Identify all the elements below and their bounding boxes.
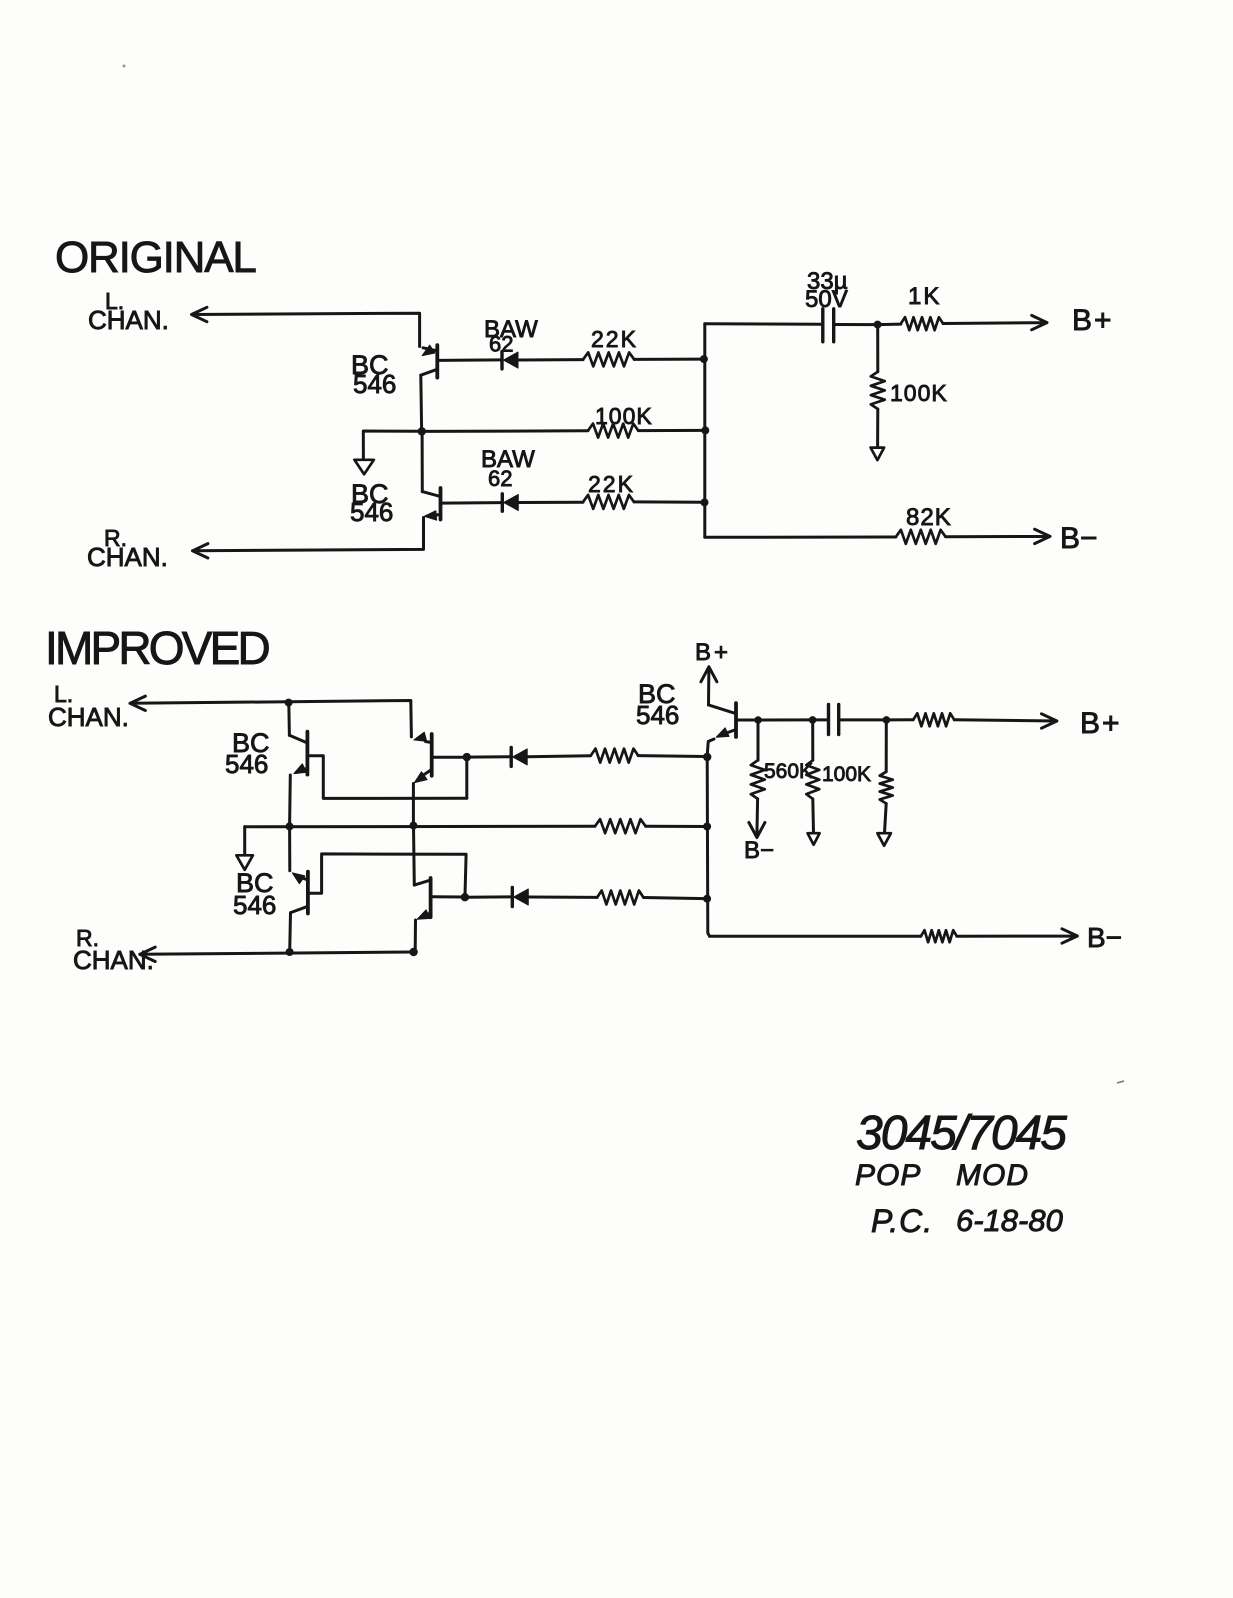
wire bus to capacitor C1 (705, 322, 822, 326)
node dot bus top (original) (700, 355, 708, 363)
node R. CHAN. label (improved) (73, 925, 154, 975)
wire D1 to resistor R1 (518, 358, 583, 361)
diode D3 (improved top row) (510, 747, 513, 766)
wire L-chan dot to Q3 emitter (287, 703, 291, 736)
node dot L channel (improved) (285, 699, 293, 707)
wire center node to ground stub (original) (363, 431, 422, 460)
svg-text:P.C.: P.C. (871, 1203, 933, 1239)
wire Q4 base to row node (434, 756, 465, 759)
svg-text:62: 62 (489, 332, 513, 357)
svg-text:560K: 560K (764, 760, 813, 783)
wire R12 to ground (811, 799, 815, 833)
wire Q4-base dot to diode D3 (467, 755, 510, 758)
label BAW 62 (D1) (484, 316, 538, 357)
resistor R14 (improved B+ out) (913, 713, 954, 726)
node dot middle bus left (improved) (286, 822, 294, 830)
node dot 100K (improved) (809, 716, 817, 724)
node dot improved bus middle (703, 823, 711, 831)
wire Q1 emitter to center node (419, 375, 423, 428)
wire Q2 emitter to R channel (193, 518, 424, 559)
resistor R5 100K (vertical) (871, 372, 885, 409)
svg-text:82K: 82K (906, 504, 952, 531)
wire Q2 base to diode D2 (442, 501, 501, 505)
label BAW 62 (D2) (481, 446, 535, 491)
wire D4 to resistor R9 (529, 896, 597, 899)
wire bus to resistor R6 (705, 536, 896, 539)
wire Q5 base loop to Q6 leg (310, 854, 466, 895)
wire R9 to right bus (644, 898, 706, 899)
svg-text:1K: 1K (908, 283, 941, 310)
node dot middle bus right (improved) (409, 822, 417, 830)
svg-text:546: 546 (233, 890, 276, 920)
node L. CHAN. label (original) (88, 288, 169, 335)
svg-text:B−: B− (1060, 522, 1098, 555)
wire bus to resistor R10 (B- out) (710, 935, 921, 938)
node junction dot (original center) (418, 427, 426, 435)
node dot bus middle (original) (701, 426, 709, 434)
wire middle-left dot to Q5 (288, 827, 291, 871)
wire node3 to resistor R13 (885, 720, 888, 772)
svg-text:50V: 50V (805, 286, 848, 313)
svg-text:22K: 22K (591, 326, 638, 352)
svg-text:B−: B− (1087, 922, 1122, 953)
wire R11 to B- arrow (749, 799, 765, 838)
wire Q6 emitter down to R channel (414, 920, 417, 951)
wire Q3 base loop to Q4 leg (309, 756, 467, 799)
ground (improved left) (243, 827, 246, 855)
transistor Q1 BC546 (original, L channel) (421, 345, 438, 378)
diode D2 BAW62 (501, 494, 504, 511)
wire node1 to resistor R11 (757, 720, 760, 760)
wire R14 to B+ (improved) (954, 714, 1057, 728)
transistor Q4 BC546 (improved, L upper-right) (414, 732, 432, 782)
node dot bus bottom (original) (701, 498, 709, 506)
node dot improved bus top (703, 753, 711, 761)
wire node2 to capacitor C2 (813, 718, 827, 721)
wire R4 to B+ (original) (943, 315, 1047, 329)
wire Q1 base to diode D1 (439, 358, 501, 362)
svg-text:ORIGINAL: ORIGINAL (55, 233, 256, 282)
svg-text:546: 546 (225, 749, 268, 779)
wire C2 to node 3 (840, 718, 884, 721)
svg-text:546: 546 (350, 497, 393, 527)
wire Q6 base to row node (433, 895, 463, 898)
diode D1 BAW62 (500, 351, 503, 369)
wire L channel (improved) (130, 696, 411, 737)
ground (original left) (354, 460, 374, 475)
wire Q6-base dot to diode D4 (465, 895, 510, 898)
wire R3 to right bus (634, 500, 704, 503)
svg-text:MOD: MOD (956, 1159, 1029, 1192)
svg-text:22K: 22K (588, 471, 635, 497)
resistor R3 22K (583, 495, 634, 509)
wire D2 to resistor R3 (518, 501, 583, 504)
wire node1 to node2 (758, 718, 811, 721)
scan speck (right) (1117, 1081, 1124, 1083)
label BC 546 (Q1) (351, 350, 396, 399)
svg-text:3045/7045: 3045/7045 (856, 1107, 1067, 1160)
node dot R channel left (improved) (286, 948, 294, 956)
svg-text:IMPROVED: IMPROVED (45, 622, 270, 674)
transistor Q5 BC546 (improved, R lower-left) (291, 872, 308, 914)
wire Q4 emitter down across to middle bus (412, 784, 415, 825)
label 33u 50V (C1) (805, 268, 848, 313)
label BC 546 (Q5) (233, 868, 276, 920)
resistor R4 1K (901, 317, 943, 330)
svg-text:B−: B− (744, 837, 774, 864)
wire node to resistor R4 (878, 323, 901, 327)
transistor Q3 BC546 (improved, L upper-left) (289, 732, 307, 775)
transistor Q6 BC546 (improved, R lower-right) (414, 878, 430, 919)
label BC 546 (Q2) (350, 479, 393, 527)
wire R6 to B- (original) (946, 529, 1050, 543)
resistor R9 (improved bottom row) (597, 891, 643, 905)
resistor R10 (improved B- out) (921, 930, 957, 942)
ground (original right) (871, 448, 885, 461)
ground (R12) (808, 833, 820, 845)
wire R5 to ground (876, 409, 879, 447)
svg-text:100K: 100K (890, 380, 948, 406)
wire node2 to resistor R12 (811, 720, 814, 760)
node dot Q7 base / 560K (754, 716, 762, 724)
node dot C1/R4 (original) (874, 321, 882, 329)
wire C1 to node (835, 323, 878, 326)
svg-text:CHAN.: CHAN. (48, 702, 129, 732)
svg-text:B+: B+ (695, 639, 731, 666)
label BC 546 (Q3) (225, 728, 270, 779)
capacitor C2 (improved) (827, 705, 830, 735)
resistor R2 100K (588, 424, 638, 438)
wire middle bus (improved) (245, 825, 595, 829)
label BC 546 (Q7) (636, 679, 679, 730)
wire node3 to resistor R14 (886, 718, 913, 721)
wire middle-right dot to Q6 (412, 826, 416, 885)
text P.C. 6-18-80 (871, 1203, 1063, 1239)
svg-text:6-18-80: 6-18-80 (956, 1203, 1063, 1238)
scan speck (top left) (123, 65, 126, 68)
wire R8 to right bus (improved) (646, 825, 707, 828)
svg-text:B+: B+ (1072, 304, 1114, 337)
svg-text:100K: 100K (822, 763, 871, 786)
wire R13 to ground (885, 804, 887, 834)
capacitor C1 33u 50V (821, 309, 824, 342)
resistor R7 (improved top row) (591, 749, 639, 763)
resistor R12 100K (vertical, improved) (806, 760, 819, 799)
wire Q7 collector to B+ (up arrow) (701, 667, 717, 705)
svg-text:CHAN.: CHAN. (73, 945, 154, 975)
wire R1 to right bus (634, 358, 703, 361)
wire Q3 arrow down to middle bus (288, 775, 292, 825)
resistor R8 (improved middle row) (595, 819, 646, 833)
wire R channel (improved) (140, 947, 414, 961)
diode D4 (improved bottom row) (511, 888, 514, 907)
wire R10 to B- (improved) (957, 929, 1078, 943)
svg-text:546: 546 (353, 369, 396, 399)
svg-text:CHAN.: CHAN. (87, 542, 168, 572)
node L. CHAN. label (improved) (48, 681, 129, 732)
text POP MOD (855, 1159, 1029, 1192)
wire R7 to right bus (638, 754, 705, 758)
transistor Q7 BC546 (improved output) (707, 703, 736, 755)
node R. CHAN. label (original) (87, 525, 168, 572)
svg-text:POP: POP (855, 1159, 921, 1192)
svg-text:B+: B+ (1080, 707, 1122, 740)
node dot C2/R13 (improved) (883, 716, 891, 724)
wire R2 to right bus (638, 429, 705, 432)
wire D3 to resistor R7 (527, 756, 590, 757)
wire Q4-base dot leg down to base loop (465, 757, 468, 798)
resistor R11 560K (vertical) (751, 760, 765, 799)
resistor R1 22K (583, 352, 634, 366)
wire Q7 base to node 1 (738, 719, 756, 722)
svg-text:CHAN.: CHAN. (88, 305, 169, 335)
wire center node to resistor R2 (422, 429, 588, 433)
wire L channel (original) (192, 307, 420, 346)
node dot Q6 base (improved) (461, 893, 469, 901)
svg-text:100K: 100K (595, 403, 653, 429)
resistor R13 (vertical, improved) (880, 772, 893, 804)
wire node to resistor R5 (876, 325, 879, 372)
ground (R13) (877, 833, 891, 846)
node dot R channel right (improved) (409, 948, 417, 956)
wire Q5 emitter down to R channel (288, 913, 292, 952)
wire right bus (improved) (707, 757, 709, 936)
svg-text:546: 546 (636, 700, 679, 730)
node dot Q4 base (improved) (463, 753, 471, 761)
wire center node to Q2 collector (421, 431, 424, 491)
wire right bus (original) (703, 324, 706, 538)
node dot improved bus bottom (703, 895, 711, 903)
resistor R6 82K (896, 530, 946, 544)
transistor Q2 BC546 (original, R channel) (422, 488, 440, 520)
svg-text:62: 62 (488, 466, 512, 491)
